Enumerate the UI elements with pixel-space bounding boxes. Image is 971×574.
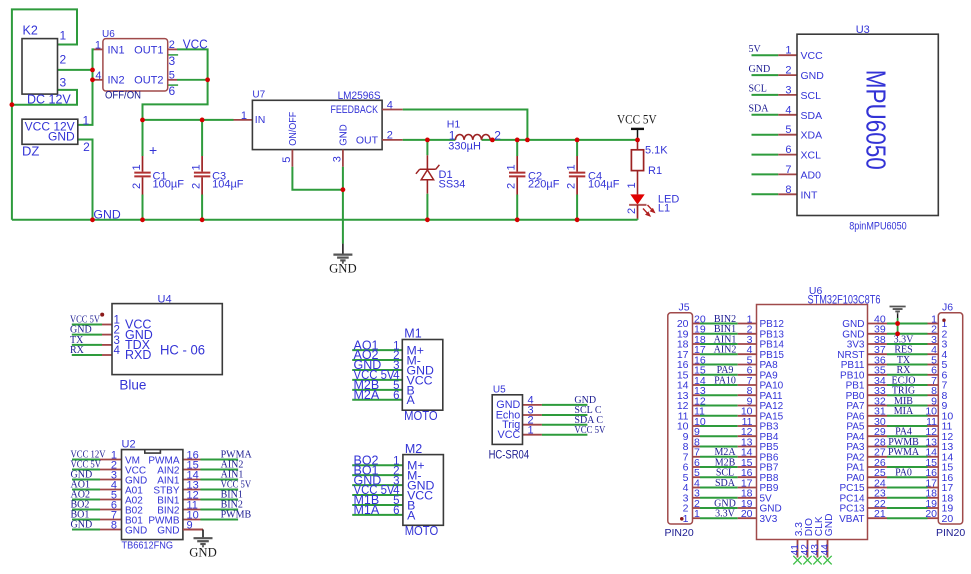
svg-text:OFF/ON: OFF/ON	[105, 90, 141, 102]
wire U6 pin28 to J6 pin13	[868, 446, 888, 448]
svg-text:K2: K2	[23, 24, 38, 38]
connector J6 PIN20	[936, 302, 965, 540]
junction C1 gnd	[140, 217, 145, 222]
wire J5 pin20 to U6 pin1	[693, 323, 701, 325]
capacitor C4 104µF	[566, 140, 620, 220]
wire U6 pin40 to J6 pin1	[868, 323, 888, 325]
capacitor C1 100µF	[131, 120, 184, 220]
svg-text:U6: U6	[102, 29, 115, 40]
wire J5 pin6 to U6 pin15	[693, 466, 701, 468]
svg-text:1: 1	[528, 424, 534, 436]
svg-text:3.3V: 3.3V	[715, 509, 736, 520]
svg-text:5: 5	[785, 124, 791, 136]
svg-text:1: 1	[566, 164, 578, 170]
wire J5 pin10 to U6 pin11	[693, 425, 701, 427]
ground U2	[194, 538, 213, 546]
wire J5 pin2 to U6 pin19	[693, 507, 701, 509]
svg-text:GND: GND	[48, 130, 75, 144]
svg-text:A: A	[407, 393, 416, 407]
wire U6 pin32 to J6 pin9	[868, 405, 888, 407]
LED L1	[626, 193, 680, 219]
svg-text:OUT1: OUT1	[134, 44, 163, 56]
svg-text:U7: U7	[252, 90, 265, 101]
connector K2 DC 12V	[22, 24, 71, 107]
wire J5 pin8 to U6 pin13	[693, 446, 701, 448]
svg-text:6: 6	[785, 144, 791, 156]
svg-text:3: 3	[169, 54, 176, 68]
wire J5 pin3 to U6 pin18	[693, 497, 701, 499]
svg-text:GND: GND	[157, 526, 179, 537]
wire U6 pin25 to J6 pin16	[868, 476, 888, 478]
svg-text:2: 2	[506, 183, 518, 189]
wire VCC vertical	[177, 49, 208, 79]
svg-text:U5: U5	[493, 385, 506, 396]
wire VCC to C1 rail	[143, 80, 208, 120]
svg-text:PIN20: PIN20	[665, 527, 694, 539]
svg-text:1: 1	[83, 114, 90, 128]
wire J5 pin19 to U6 pin2	[693, 333, 701, 335]
svg-text:AD0: AD0	[801, 169, 822, 181]
svg-text:1: 1	[131, 164, 143, 170]
svg-text:STM32F103C8T6: STM32F103C8T6	[808, 294, 881, 306]
svg-text:R1: R1	[648, 165, 662, 177]
wire J5 pin1 to U6 pin20	[693, 517, 701, 519]
wire OUT2	[177, 79, 208, 81]
wire U6 pin24 to J6 pin17	[868, 487, 888, 489]
svg-text:M1: M1	[404, 327, 421, 341]
junction C3	[200, 118, 205, 123]
svg-text:VCC: VCC	[801, 50, 824, 62]
junction C4	[575, 138, 580, 143]
svg-text:DZ: DZ	[22, 144, 39, 159]
svg-text:M2A: M2A	[354, 388, 380, 402]
wire U6 pin30 to J6 pin11	[868, 425, 888, 427]
svg-text:21: 21	[874, 508, 886, 520]
junction feedback	[525, 138, 530, 143]
junction K2 pin2 net	[90, 68, 95, 73]
svg-text:IN2: IN2	[108, 75, 125, 87]
svg-text:2: 2	[566, 183, 578, 189]
wire U6 pin39 to J6 pin2	[868, 333, 888, 335]
wire J5 pin16 to U6 pin5	[693, 364, 701, 366]
junction dot near U4	[100, 313, 104, 317]
junction left rail	[10, 102, 15, 107]
svg-text:U4: U4	[158, 294, 172, 306]
svg-text:SDA: SDA	[715, 478, 736, 489]
capacitor C2 220µF	[506, 140, 560, 220]
wire U6 pin34 to J6 pin7	[868, 384, 888, 386]
pin U7.3 GND stub	[342, 150, 344, 167]
svg-text:XDA: XDA	[801, 130, 823, 142]
junction gnd row2	[895, 331, 900, 336]
junction D1 gnd	[425, 217, 430, 222]
junction gnd row1	[895, 321, 900, 326]
pin U7.5 ON/OFF stub	[291, 150, 293, 167]
svg-text:PA0: PA0	[895, 468, 912, 479]
svg-text:104µF: 104µF	[212, 179, 244, 191]
svg-text:INT: INT	[801, 189, 819, 201]
svg-text:2: 2	[131, 183, 143, 189]
svg-text:GND: GND	[125, 526, 147, 537]
svg-text:U3: U3	[856, 24, 870, 36]
svg-text:PA10: PA10	[714, 375, 736, 386]
svg-text:DC 12V: DC 12V	[27, 93, 71, 107]
svg-text:VCC 5V: VCC 5V	[574, 425, 606, 436]
svg-text:L1: L1	[658, 203, 670, 215]
wire J5 pin17 to U6 pin4	[693, 353, 701, 355]
svg-text:330µH: 330µH	[448, 141, 481, 153]
junction D1	[425, 138, 430, 143]
svg-text:SCL: SCL	[801, 90, 822, 102]
regulator U7 LM2596S	[241, 90, 393, 163]
svg-text:MPU6050: MPU6050	[861, 70, 892, 170]
svg-text:M1A: M1A	[354, 503, 380, 517]
svg-text:MIA: MIA	[894, 406, 914, 417]
pin U7.2 OUT stub	[382, 139, 403, 141]
svg-text:SCL: SCL	[749, 84, 767, 95]
junction C2 gnd	[515, 217, 520, 222]
wire U6 pin21 to J6 pin20	[868, 517, 888, 519]
wire K2 pin2 to U6	[58, 69, 93, 71]
svg-text:MOTO: MOTO	[405, 524, 439, 538]
wire DC12V vertical	[78, 49, 94, 125]
svg-text:MOTO: MOTO	[404, 409, 438, 423]
svg-text:J6: J6	[942, 302, 953, 314]
svg-text:2: 2	[785, 65, 791, 77]
junction C2	[515, 138, 520, 143]
svg-text:1: 1	[694, 508, 700, 520]
junction VCC5V	[635, 138, 640, 143]
no-connect X	[813, 556, 821, 565]
svg-text:VCC: VCC	[498, 429, 521, 441]
svg-text:20: 20	[741, 508, 753, 520]
wire J5 pin12 to U6 pin9	[693, 405, 701, 407]
wire J5 pin7 to U6 pin14	[693, 456, 701, 458]
connector DZ VCC12V/GND	[22, 114, 90, 159]
svg-text:1: 1	[785, 45, 791, 57]
svg-text:LM2596S: LM2596S	[338, 90, 381, 102]
svg-text:+: +	[149, 142, 157, 158]
svg-text:GND: GND	[749, 64, 771, 75]
svg-text:1: 1	[95, 39, 101, 51]
connector J5 PIN20	[665, 302, 694, 540]
wire J5 pin4 to U6 pin17	[693, 487, 701, 489]
svg-text:1: 1	[626, 182, 638, 188]
svg-text:5: 5	[281, 157, 293, 163]
svg-text:44: 44	[820, 544, 831, 556]
svg-text:1: 1	[241, 110, 247, 122]
svg-text:2: 2	[626, 208, 638, 214]
svg-text:VCC 5V: VCC 5V	[617, 113, 657, 127]
svg-text:GND: GND	[329, 262, 357, 276]
power VCC 5V	[617, 113, 657, 140]
svg-text:3: 3	[785, 84, 791, 96]
wire J5 pin18 to U6 pin3	[693, 343, 701, 345]
svg-text:104µF: 104µF	[588, 179, 620, 191]
svg-text:2: 2	[83, 140, 90, 154]
svg-text:J5: J5	[679, 302, 690, 314]
svg-text:3: 3	[60, 76, 67, 90]
svg-text:8: 8	[785, 184, 791, 196]
wire DZ pin2	[78, 140, 93, 220]
svg-text:6: 6	[393, 505, 399, 517]
svg-text:SDA: SDA	[749, 104, 770, 115]
wire U6 pin27 to J6 pin14	[868, 456, 888, 458]
svg-text:GND: GND	[71, 520, 93, 531]
resistor R1 5.1K	[626, 140, 668, 195]
svg-text:FEEDBACK: FEEDBACK	[331, 104, 379, 116]
wire input rail to U7 IN	[143, 119, 234, 121]
junction C1	[140, 118, 145, 123]
junction C3 gnd	[200, 217, 205, 222]
junction GND rail	[90, 217, 95, 222]
module U4 HC-06	[70, 294, 222, 393]
wire left rail	[12, 9, 77, 219]
MCU body U6	[757, 285, 881, 539]
svg-text:OUT2: OUT2	[134, 75, 163, 87]
switch U6 OFF/ON	[93, 29, 179, 102]
wire U6 pin26 to J6 pin15	[868, 466, 888, 468]
wire U6 pin29 to J6 pin12	[868, 435, 888, 437]
pin U6.43 CLK	[817, 540, 819, 558]
svg-text:TB6612FNG: TB6612FNG	[122, 539, 174, 551]
svg-text:2: 2	[191, 183, 203, 189]
wire U6 pin36 to J6 pin5	[868, 364, 888, 366]
svg-text:VCC: VCC	[183, 37, 208, 51]
wire J5 pin14 to U6 pin7	[693, 384, 701, 386]
svg-text:2: 2	[494, 128, 501, 142]
svg-text:1: 1	[506, 164, 518, 170]
svg-text:HC - 06: HC - 06	[160, 342, 205, 357]
wire pin5 to pin3	[292, 167, 343, 190]
wire U6 pin22 to J6 pin19	[868, 507, 888, 509]
svg-text:3V3: 3V3	[760, 514, 778, 525]
capacitor C3 104µF	[191, 120, 244, 220]
svg-text:2: 2	[169, 39, 175, 51]
junction GND pin3	[341, 187, 346, 192]
svg-text:IN1: IN1	[108, 44, 125, 56]
svg-text:8pinMPU6050: 8pinMPU6050	[849, 220, 907, 232]
no-connect X	[793, 556, 801, 565]
diode D1 SS34	[416, 140, 466, 220]
wire 5V rail after inductor	[482, 139, 638, 141]
svg-text:4: 4	[95, 70, 101, 82]
svg-text:VBAT: VBAT	[839, 514, 864, 525]
svg-text:GND: GND	[824, 514, 835, 537]
svg-text:Blue: Blue	[119, 378, 146, 393]
wire J5 pin11 to U6 pin10	[693, 415, 701, 417]
wire J5 pin5 to U6 pin16	[693, 476, 701, 478]
svg-text:3: 3	[331, 156, 343, 162]
svg-text:5V: 5V	[749, 44, 762, 55]
wire U7 GND down	[342, 167, 344, 244]
svg-text:8: 8	[111, 520, 117, 532]
svg-text:PIN20: PIN20	[936, 527, 965, 539]
svg-text:GND: GND	[801, 70, 825, 82]
pin U7.4 FEEDBACK stub	[382, 109, 403, 111]
wire U6 pin31 to J6 pin10	[868, 415, 888, 417]
connector M2 MOTO	[352, 442, 443, 538]
svg-text:GND: GND	[93, 208, 120, 222]
ground U7	[333, 255, 352, 263]
svg-text:OUT: OUT	[356, 134, 379, 146]
svg-text:5: 5	[169, 69, 175, 81]
wire U6 pin37 to J6 pin4	[868, 353, 888, 355]
svg-text:20: 20	[925, 508, 937, 520]
svg-text:XCL: XCL	[801, 150, 822, 162]
svg-text:SDA: SDA	[801, 110, 823, 122]
svg-text:PWMB: PWMB	[221, 510, 252, 521]
svg-text:4: 4	[114, 345, 121, 357]
wire feedback	[403, 110, 528, 140]
connector M1 MOTO	[352, 327, 443, 423]
junction C4 gnd	[575, 217, 580, 222]
junction H1 pin2	[490, 138, 495, 143]
IC U2 TB6612FNG	[71, 439, 253, 552]
svg-text:6: 6	[169, 84, 176, 98]
svg-text:U2: U2	[122, 439, 136, 451]
no-connect X	[803, 556, 811, 565]
svg-text:IN: IN	[255, 114, 265, 126]
junction OUT2/VCC	[205, 77, 210, 82]
svg-text:RXD: RXD	[125, 348, 151, 362]
wire J5 pin13 to U6 pin8	[693, 394, 701, 396]
module U5 HC-SR04	[489, 385, 606, 462]
svg-text:HC-SR04: HC-SR04	[489, 450, 530, 462]
svg-text:GND: GND	[338, 124, 350, 146]
ground stub	[342, 244, 344, 255]
pin U6.44 GND	[827, 540, 829, 558]
wire U6 pin38 to J6 pin3	[868, 343, 888, 345]
svg-text:SS34: SS34	[439, 179, 466, 191]
pin U6.41 3.3	[797, 540, 799, 558]
wire J5 pin15 to U6 pin6	[693, 374, 701, 376]
svg-text:M2: M2	[405, 442, 422, 456]
wire U6 pin23 to J6 pin18	[868, 497, 888, 499]
svg-text:PWMA: PWMA	[888, 447, 920, 458]
no-connect X	[823, 556, 831, 565]
svg-text:RX: RX	[70, 345, 85, 356]
svg-text:6: 6	[393, 390, 399, 402]
wire K2 pin3	[12, 90, 77, 105]
wire gnd drop	[897, 318, 899, 334]
svg-text:100µF: 100µF	[153, 179, 185, 191]
svg-text:1: 1	[191, 164, 203, 170]
pin U6.42 DIO	[807, 540, 809, 558]
wire J5 pin9 to U6 pin12	[693, 435, 701, 437]
wire U6 pin33 to J6 pin8	[868, 394, 888, 396]
svg-text:220µF: 220µF	[528, 179, 560, 191]
svg-text:4: 4	[785, 104, 791, 116]
inductor H1 330µH	[447, 119, 502, 153]
svg-text:ON/OFF: ON/OFF	[287, 112, 299, 146]
wire U6 pin35 to J6 pin6	[868, 374, 888, 376]
svg-text:A: A	[407, 508, 416, 522]
pin U2.9 stub	[183, 529, 203, 531]
junction IN2	[90, 77, 95, 82]
svg-text:AIN2: AIN2	[714, 345, 737, 356]
svg-text:2: 2	[60, 53, 67, 67]
wire GND bottom rail	[12, 219, 638, 221]
svg-text:5.1K: 5.1K	[645, 145, 668, 157]
IC U3 MPU6050	[749, 24, 939, 232]
svg-text:1: 1	[60, 29, 67, 43]
svg-text:7: 7	[785, 164, 791, 176]
ground STM32	[890, 307, 906, 314]
pin U7.1 stub	[234, 119, 253, 121]
svg-text:GND: GND	[189, 545, 217, 559]
wire OUT to inductor	[403, 139, 456, 141]
svg-text:20: 20	[942, 513, 954, 525]
